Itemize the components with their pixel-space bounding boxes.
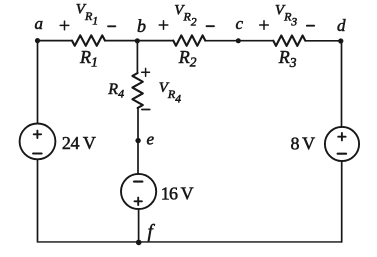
plus sign inside 24V source	[34, 131, 41, 138]
svg-text:R3: R3	[278, 47, 297, 70]
voltage source 24V circle	[20, 123, 56, 159]
wire 24V source down to bottom wire	[37, 159, 39, 242]
resistor R2	[173, 35, 205, 45]
wire node d down to 8V source	[341, 41, 343, 127]
svg-text:d: d	[337, 16, 346, 35]
plus sign inside 8V source	[338, 133, 345, 140]
voltage source 16V circle	[121, 174, 156, 209]
node a	[35, 38, 40, 43]
minus sign inside 24V source	[33, 152, 42, 154]
resistor R1	[72, 35, 105, 45]
node f	[136, 240, 142, 246]
resistor R3	[273, 36, 305, 46]
minus sign right of R2	[207, 25, 215, 27]
resistor R4	[132, 73, 142, 108]
svg-text:e: e	[147, 129, 155, 148]
svg-text:24 V: 24 V	[62, 133, 96, 153]
plus sign left of R2	[159, 21, 168, 30]
voltage source 8V circle	[325, 127, 359, 161]
wire 8V source down to bottom wire	[341, 161, 343, 242]
node c	[236, 38, 241, 43]
svg-text:a: a	[35, 14, 44, 33]
wire 16V source to node f	[138, 209, 140, 242]
minus sign inside 16V source	[134, 181, 142, 183]
wire R4 to node e to 16V source	[137, 108, 139, 174]
minus sign right of R1	[108, 25, 115, 27]
svg-text:VR2: VR2	[174, 2, 197, 28]
wire node a down to 24V source	[37, 41, 39, 124]
plus sign above R4	[142, 68, 150, 76]
svg-text:8 V: 8 V	[291, 134, 316, 154]
svg-text:R4: R4	[107, 81, 124, 100]
wire a to R1	[38, 40, 73, 42]
wire R2 to R3 through node c	[205, 40, 273, 42]
minus sign below R4	[142, 109, 150, 111]
wire R3 to node d	[305, 40, 341, 42]
node e	[135, 138, 140, 143]
minus sign right of R3	[307, 25, 314, 27]
svg-text:c: c	[236, 14, 244, 33]
svg-text:f: f	[148, 222, 156, 243]
minus sign inside 8V source	[338, 153, 347, 155]
svg-text:R1: R1	[79, 47, 98, 71]
plus sign left of R3	[260, 21, 269, 30]
svg-text:VR1: VR1	[76, 2, 98, 28]
wire node b down to R4	[136, 41, 138, 73]
svg-text:VR4: VR4	[159, 80, 182, 105]
node b	[135, 38, 140, 43]
node d	[338, 38, 343, 43]
svg-text:16 V: 16 V	[161, 183, 194, 203]
svg-text:VR3: VR3	[275, 2, 298, 28]
svg-text:b: b	[137, 16, 146, 36]
svg-text:R2: R2	[178, 47, 197, 70]
bottom wire	[38, 241, 342, 243]
plus sign inside 16V source	[135, 198, 142, 205]
plus sign left of R1	[60, 21, 69, 30]
wire R1 to R2 through node b	[105, 40, 173, 42]
